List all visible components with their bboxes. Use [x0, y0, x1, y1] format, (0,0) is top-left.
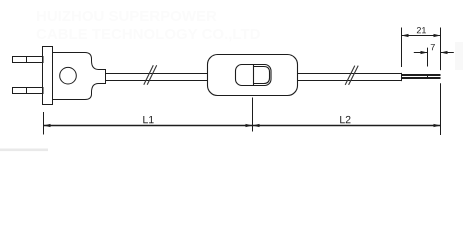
svg-text:CABLE TECHNOLOGY CO.,LTD: CABLE TECHNOLOGY CO.,LTD	[36, 26, 261, 43]
svg-text:HUIZHOU SUPERPOWER: HUIZHOU SUPERPOWER	[36, 8, 217, 25]
